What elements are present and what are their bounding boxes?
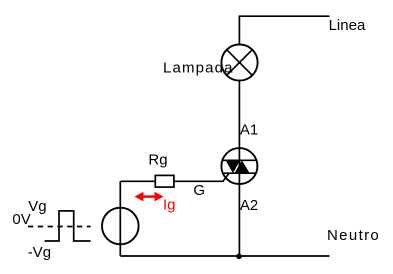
svg-text:Linea: Linea xyxy=(329,17,366,34)
svg-text:0V: 0V xyxy=(12,211,30,228)
svg-text:-Vg: -Vg xyxy=(28,244,51,261)
svg-text:A1: A1 xyxy=(240,122,258,139)
svg-text:A2: A2 xyxy=(240,197,258,214)
svg-text:Vg: Vg xyxy=(28,198,46,215)
svg-text:G: G xyxy=(193,182,205,199)
svg-text:Ig: Ig xyxy=(163,197,176,214)
svg-text:Neutro: Neutro xyxy=(327,227,380,244)
svg-text:Rg: Rg xyxy=(148,152,167,169)
svg-text:Lampada: Lampada xyxy=(163,60,234,77)
